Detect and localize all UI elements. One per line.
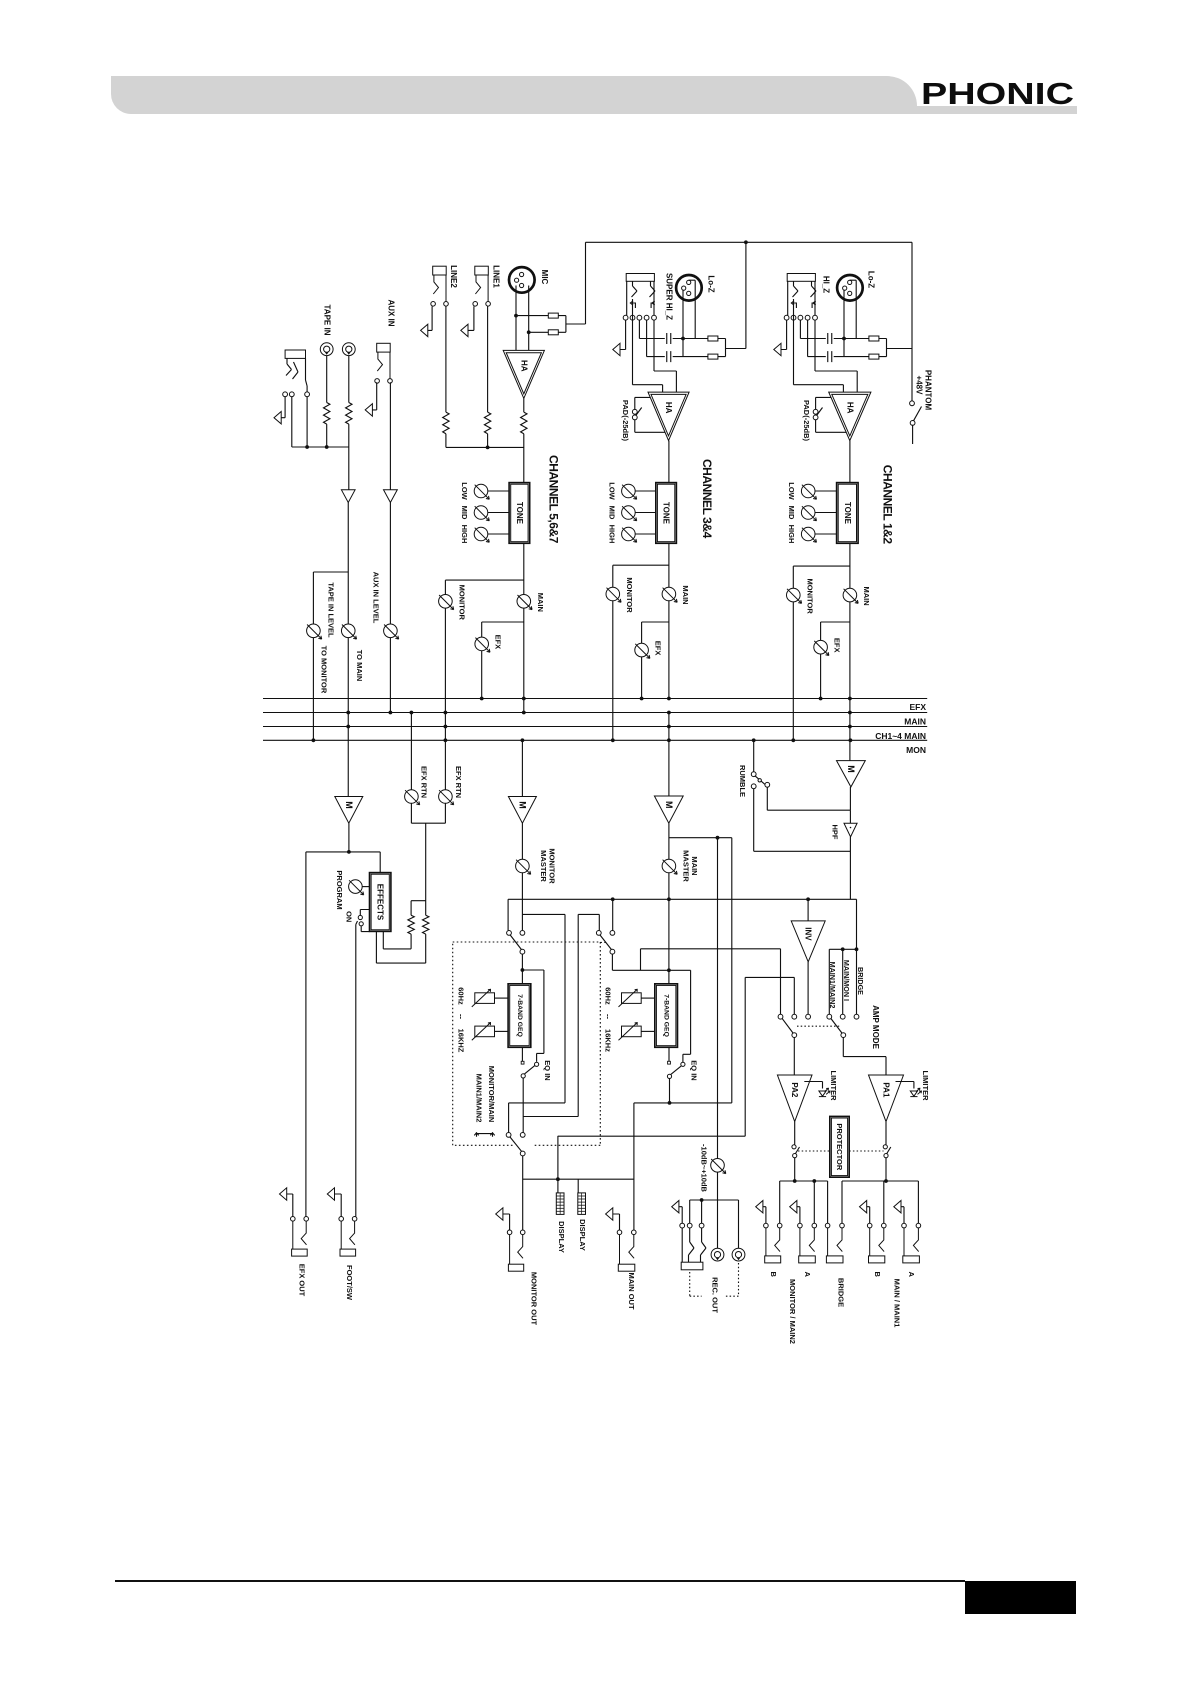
junction main master on CH1-4 bus	[667, 725, 671, 729]
wire TAPE IN right edge	[306, 358, 308, 392]
junction tape main on MAIN bus	[346, 711, 350, 715]
switch geq2 sel lever	[600, 935, 611, 950]
svg-text:7-BAND GEQ: 7-BAND GEQ	[516, 994, 523, 1037]
wire CH5,6&7 efx to EFX bus	[481, 651, 483, 699]
switch AMP MODE contact R3	[854, 1014, 859, 1019]
svg-text:BRIDGE: BRIDGE	[837, 1278, 846, 1307]
ground MAIN OUT	[606, 1208, 613, 1220]
wire geq2 input rail	[612, 954, 690, 1062]
svg-text:MAIN / MAIN1: MAIN / MAIN1	[893, 1279, 902, 1328]
svg-text:CHANNEL 1&2: CHANNEL 1&2	[881, 465, 895, 545]
svg-text:AMP MODE: AMP MODE	[871, 1005, 880, 1050]
filter HPF	[844, 823, 857, 837]
wire HA CH5,6&7 output	[523, 398, 525, 412]
svg-text:MAIN: MAIN	[536, 593, 545, 612]
wire AUX to pot	[389, 503, 391, 625]
wire CH1&2 phantom join	[887, 339, 913, 357]
wire geq1 input rail	[522, 954, 544, 1062]
switch geq2 sel contact a	[596, 931, 601, 936]
switch mon/main sel contact b	[520, 1133, 525, 1138]
junction geq1 in	[521, 968, 525, 972]
switch CH1&2 PAD contact a	[813, 409, 818, 414]
wire geq1 bypass drop	[509, 1103, 565, 1133]
svg-text:CH1~4 MAIN: CH1~4 MAIN	[875, 731, 926, 741]
pot CH5,6&7 MAIN	[517, 595, 532, 610]
wire MONITOR OUT ground	[503, 1214, 510, 1230]
svg-text:RUMBLE: RUMBLE	[738, 765, 747, 797]
wire CH3&4 phantom join	[726, 339, 746, 357]
svg-text:PA2: PA2	[790, 1082, 799, 1098]
wire CH1&2 efx to EFX bus	[820, 654, 822, 699]
dotted REC OUT cable	[690, 1263, 739, 1296]
pot CH5,6&7 TONE MID	[474, 506, 489, 521]
ground speaker A mon	[790, 1201, 797, 1213]
connector CH3&4 Lo-Z XLR	[676, 275, 702, 301]
pot CH1&2 EFX	[814, 640, 829, 655]
switch mon/main lever	[510, 1137, 522, 1151]
pot MAIN MASTER	[662, 859, 677, 874]
junction CH1&2 main on EFX bus	[848, 697, 852, 701]
wire monitor master to selector	[522, 873, 599, 1117]
ground AUX IN sleeve	[365, 404, 372, 416]
switch geq1 sel contact b	[520, 931, 525, 936]
junction CH5,6&7 on EFX bus	[480, 697, 484, 701]
capacitor CH1&2 upper	[828, 333, 832, 344]
switch CH3&4 PAD contact a	[632, 409, 637, 414]
switch protector right b	[884, 1154, 888, 1158]
svg-text:HA: HA	[845, 402, 854, 414]
display MONITOR LED bar	[556, 1193, 564, 1215]
switch RUMBLE contact c	[765, 782, 770, 787]
wire MIC phantom feed upper	[516, 315, 566, 317]
junction EFX RTN2 on MAIN bus	[444, 711, 448, 715]
wire geq1 pole down	[523, 1078, 578, 1133]
svg-text:REC. OUT: REC. OUT	[710, 1277, 719, 1313]
wire geq1 rail to L1	[641, 949, 781, 1015]
wire CH3&4 to HA inputs	[633, 299, 677, 392]
wire main master to geq rail	[668, 873, 670, 984]
switch CH3&4 PAD lever	[636, 408, 642, 416]
wire MIC XLR outputs to HA	[516, 286, 529, 351]
jack CH1&2 contact 1	[784, 315, 789, 320]
wire HA CH3&4 to TONE	[668, 441, 670, 483]
buffer AUX line amp	[384, 490, 398, 503]
wire CH3&4 monitor branch	[613, 565, 669, 587]
switch protector left a	[792, 1145, 796, 1149]
wire MIC phantom join	[566, 313, 586, 332]
svg-text:BRIDGE: BRIDGE	[856, 967, 865, 995]
jack CH3&4 HI-Z combo body	[626, 274, 654, 282]
jack REC OUT contact 689.7	[687, 1223, 692, 1228]
svg-text:LIMITER: LIMITER	[921, 1071, 930, 1102]
pot CH1&2 TONE LOW	[801, 484, 816, 499]
wire LINE2 sleeve to ground	[428, 306, 432, 330]
wire TAPE IN sleeve to ground	[281, 397, 285, 418]
bus MAIN	[263, 712, 927, 714]
svg-text:EFX: EFX	[654, 641, 663, 656]
slider geq2 16KHz	[619, 1023, 642, 1041]
svg-text:MASTER: MASTER	[681, 850, 690, 882]
wire CH3&4 MID pot stub	[635, 512, 656, 514]
svg-text:MAIN: MAIN	[681, 585, 690, 604]
header gray bar	[111, 76, 917, 114]
pot CH3&4 TONE HIGH	[622, 527, 637, 542]
footer black box	[965, 1581, 1076, 1614]
wire CH5,6&7 main line	[523, 543, 525, 594]
switch geq2 EQ IN square	[668, 1061, 671, 1064]
wire CH3&4 main line	[668, 543, 670, 587]
wire CH1&2 main to mon sum	[849, 602, 851, 761]
junction TAPE merge b	[325, 445, 329, 449]
summing amp M MON	[837, 761, 866, 787]
wire INV out	[807, 962, 809, 1015]
wire CH5,6&7 monitor to MON bus	[444, 608, 446, 740]
wire INV feed	[807, 899, 809, 921]
svg-text:HPF: HPF	[831, 825, 840, 840]
resistor EFX return b	[423, 915, 429, 934]
gang geq selector dotted	[600, 941, 607, 943]
jack REC OUT contact 682.2	[680, 1223, 685, 1228]
wire RUMBLE feed	[753, 740, 755, 771]
junction CH3&4 on MON bus	[611, 738, 615, 742]
svg-text:MAIN OUT: MAIN OUT	[627, 1272, 636, 1309]
junction TAPE merge a	[305, 445, 309, 449]
svg-text:B: B	[769, 1271, 778, 1277]
wire EFFECTS outputs	[376, 931, 425, 963]
wire bridge tap	[856, 899, 858, 1014]
switch phantom contact b	[910, 421, 915, 426]
jack FOOT/SW	[339, 1217, 357, 1257]
wire geq1 out	[521, 1047, 523, 1061]
svg-text:FOOT/SW: FOOT/SW	[345, 1265, 354, 1301]
svg-text:PA1: PA1	[882, 1082, 891, 1098]
switch protector left b	[793, 1154, 797, 1158]
jack CH1&2 contact 3	[798, 315, 803, 320]
switch CH3&4 PAD contact b	[632, 415, 637, 420]
wire TAPE RCA R drop	[348, 356, 350, 403]
switch mon/main sel pole	[520, 1151, 525, 1156]
wire AUX sleeve to ground	[372, 382, 376, 410]
wire speaker B main ground	[867, 1207, 870, 1224]
junction main master on MON bus	[667, 738, 671, 742]
svg-text:EFX RTN: EFX RTN	[454, 766, 463, 798]
wire CH3&4 efx branch	[642, 622, 669, 643]
switch protector right a	[883, 1145, 887, 1149]
svg-text:EFX RTN: EFX RTN	[420, 766, 429, 798]
svg-text:DISPLAY: DISPLAY	[557, 1221, 566, 1253]
switch RUMBLE mid contact	[758, 779, 761, 782]
wire PROGRAM stub	[362, 886, 369, 888]
junction EFX RTN1 on MAIN bus	[410, 711, 414, 715]
wire HA CH1&2 to TONE	[849, 441, 851, 483]
wire H1 drop to geq2 selector	[612, 899, 614, 930]
bus CH1~4 MAIN	[263, 726, 927, 728]
jack CH3&4 insertion arrow 2	[651, 301, 655, 308]
junction LINE1 on mix	[486, 446, 490, 450]
wire display1 drop	[557, 1136, 559, 1193]
jack CH3&4 contact 2	[630, 315, 635, 320]
wire MIC phantom feed lower	[529, 331, 566, 333]
svg-text:MONITOR OUT: MONITOR OUT	[529, 1272, 538, 1326]
ground speaker B mon	[756, 1201, 763, 1213]
wire EFX RTN 1 to MAIN bus	[410, 713, 412, 790]
svg-text:--: --	[457, 1014, 466, 1019]
switch AMP MODE contact R1	[827, 1014, 832, 1019]
junction rumble on MON bus	[752, 738, 756, 742]
svg-text:MIC: MIC	[540, 270, 549, 285]
block TONE CH1&2	[837, 483, 859, 544]
svg-text:MASTER: MASTER	[539, 850, 548, 882]
svg-text:PAD(-25dB): PAD(-25dB)	[802, 400, 811, 442]
junction bracket mid	[841, 947, 845, 951]
pot CH5,6&7 MONITOR	[439, 595, 454, 610]
wire EFX OUT ground	[287, 1194, 293, 1217]
wire CH5,6&7 mix merge	[446, 434, 524, 483]
junction CH1&2 XLR wire on cap rail	[842, 337, 846, 341]
wire CH3&4 LOW pot stub	[635, 490, 656, 492]
jack CH3&4 insertion arrow 1	[630, 301, 635, 308]
junction REC jack tip	[700, 1198, 704, 1202]
junction CH5,6&7 main on MAIN bus	[522, 711, 526, 715]
wire geq1 slider1 stub	[495, 997, 509, 999]
connector TAPE IN RCA R	[342, 343, 355, 356]
svg-text:-10dB~+10dB: -10dB~+10dB	[700, 1144, 709, 1193]
connector TAPE IN RCA L	[320, 343, 333, 356]
svg-text:TONE: TONE	[515, 502, 524, 525]
wire TAPE merge	[292, 397, 349, 490]
PHONIC logo	[921, 77, 1140, 111]
svg-text:TO MONITOR: TO MONITOR	[320, 646, 329, 694]
wire CH3&4 HIGH pot stub	[635, 533, 656, 535]
svg-text:EFFECTS: EFFECTS	[376, 884, 385, 921]
svg-text:HI_Z: HI_Z	[822, 276, 831, 293]
switch geq2 sel pole	[610, 949, 615, 954]
gang AMP MODE dotted	[797, 1025, 840, 1027]
jack speaker speaker BRIDGE	[825, 1223, 844, 1263]
wire monitor feed horizontal	[558, 1135, 745, 1137]
junction PA2 rail feed	[793, 1179, 797, 1183]
wire PA1 speaker rail	[842, 1181, 918, 1223]
pot CH5,6&7 TONE HIGH	[474, 527, 489, 542]
junction display1	[556, 1177, 560, 1181]
junction main master on MAIN bus	[667, 711, 671, 715]
switch mon/main sel contact a	[506, 1133, 511, 1138]
svg-text:16KHz: 16KHz	[604, 1029, 613, 1052]
svg-text:MAIN: MAIN	[904, 716, 926, 726]
bus MON	[263, 739, 927, 741]
op-amp HA CH5,6&7	[503, 350, 544, 398]
switch AMP MODE contact L3	[806, 1014, 811, 1019]
wire geq2 slider1 stub	[641, 997, 655, 999]
svg-text:LINE2: LINE2	[449, 265, 458, 288]
wire phantom switch to supply	[912, 425, 914, 444]
switch geq1 EQ IN lever	[525, 1066, 535, 1074]
jack REC OUT springs	[682, 1228, 706, 1262]
jack TAPE IN contact 3	[305, 392, 310, 397]
pot CH3&4 EFX	[635, 643, 650, 658]
ground CH3&4 jack sleeve	[613, 343, 620, 355]
wire CH1&2 cap rail upper	[800, 320, 886, 339]
switch AMP MODE contact R2	[840, 1014, 845, 1019]
wire CH3&4 cap rail upper	[639, 320, 725, 339]
junction monitor master on MON bus	[521, 738, 525, 742]
wire mon sum out	[767, 787, 850, 810]
pot AUX IN LEVEL	[384, 624, 399, 639]
svg-text:EFX: EFX	[833, 638, 842, 653]
pot PROGRAM	[349, 880, 364, 895]
switch AMP MODE lever left	[782, 1019, 793, 1033]
svg-text:TONE: TONE	[662, 502, 671, 525]
wire master crossfeed rail H1	[508, 899, 856, 930]
svg-text:MAIN1/MAIN2: MAIN1/MAIN2	[474, 1074, 483, 1123]
svg-text:LIMITER: LIMITER	[829, 1071, 838, 1102]
jack CH1&2 HI-Z combo body	[787, 274, 815, 282]
jack CH3&4 contact 5	[652, 315, 657, 320]
wire CH1&2 efx branch	[821, 622, 850, 640]
svg-text:MID: MID	[460, 506, 469, 520]
wire CH1&2 HIGH pot stub	[815, 533, 837, 535]
ground speaker A main	[894, 1201, 901, 1213]
capacitor CH1&2 lower	[828, 351, 832, 362]
junction CH1&2 main on CH1-4 bus	[848, 725, 852, 729]
pot CH5,6&7 EFX	[475, 637, 490, 652]
wire MAIN bus to main master	[668, 713, 670, 797]
switch RUMBLE lever	[755, 776, 765, 785]
pot TAPE IN LEVEL (to monitor)	[307, 624, 322, 639]
wire CH3&4 cap rail lower	[647, 320, 726, 357]
svg-text:TAPE IN LEVEL: TAPE IN LEVEL	[326, 582, 335, 638]
wire CH3&4 PAD bracket	[635, 397, 666, 432]
svg-text:MAIN: MAIN	[862, 587, 871, 606]
switch geq1 EQ IN bypass	[535, 1062, 539, 1066]
junction EFX RTN2 on CH1-4 bus	[444, 725, 448, 729]
jack TAPE IN contact 1	[283, 392, 288, 397]
wire geq2 pole down	[669, 1079, 671, 1103]
wire amp mode bracket	[829, 949, 856, 1014]
junction CH1&2 on MON bus	[791, 738, 795, 742]
wire CH1&2 sleeve to ground	[781, 320, 787, 350]
svg-text:Lo-Z: Lo-Z	[867, 271, 876, 288]
resistor MIC phantom lower	[548, 330, 558, 335]
wire phantom +48V top rail	[586, 242, 913, 401]
wire speaker A mon ground	[797, 1207, 800, 1224]
svg-text:MID: MID	[787, 506, 796, 520]
junction rec feed tap	[716, 836, 720, 840]
wire geq2 out	[668, 1047, 670, 1061]
svg-text:HIGH: HIGH	[607, 525, 616, 544]
junction geq2 out on main h	[668, 1101, 672, 1105]
jack CH1&2 contact 2	[791, 315, 796, 320]
junction MIC cold on phantom rail	[527, 330, 531, 334]
switch AMP MODE lever right	[831, 1019, 842, 1033]
wire AUX signal	[389, 382, 391, 490]
wire PA1 out	[885, 1122, 887, 1181]
svg-text:A: A	[803, 1271, 812, 1277]
wire speaker B mon ground	[763, 1207, 766, 1224]
symbol gang arrows	[474, 1133, 494, 1137]
resistor LINE2 mix	[443, 412, 449, 434]
resistor TAPE R	[346, 403, 352, 425]
svg-text:PAD(-25dB): PAD(-25dB)	[621, 400, 630, 442]
junction MIC hot on phantom rail	[514, 314, 518, 318]
switch CH1&2 PAD lever	[817, 408, 823, 416]
svg-text:MONITOR: MONITOR	[457, 585, 466, 621]
jack MAIN OUT	[617, 1230, 636, 1271]
junction EFX out split	[347, 850, 351, 854]
switch geq2 sel contact b	[610, 931, 615, 936]
wire EFX RTN join	[411, 823, 426, 915]
connector REC OUT RCA L	[711, 1248, 724, 1261]
switch geq1 sel contact a	[507, 931, 512, 936]
jack CH3&4 contact springs	[632, 281, 656, 297]
ground MONITOR OUT	[496, 1208, 503, 1220]
block EFFECTS	[370, 873, 391, 932]
wire display2 drop	[577, 1179, 579, 1193]
switch geq1 sel pole	[520, 949, 525, 954]
switch RUMBLE contact b	[751, 784, 756, 789]
wire FOOT/SW ground	[335, 1194, 342, 1217]
pot EFX RTN 1	[405, 790, 420, 805]
header thin strip under logo	[180, 106, 1077, 114]
junction INV tap	[806, 897, 810, 901]
svg-text:TAPE IN: TAPE IN	[323, 305, 332, 336]
svg-text:LOW: LOW	[460, 482, 469, 500]
wire CH3&4 monitor to MON bus	[612, 601, 614, 741]
wire PA2 limiter stub	[804, 1082, 822, 1089]
LED LIMITER PA1	[910, 1088, 921, 1096]
svg-text:M: M	[517, 801, 527, 809]
op-amp HA CH3&4	[648, 392, 689, 441]
junction PA2 rail jack A	[812, 1179, 816, 1183]
slider geq2 60Hz	[619, 989, 642, 1007]
bus EFX	[263, 698, 927, 700]
slider geq1 16KHZ	[472, 1023, 495, 1041]
resistor MIC phantom upper	[548, 313, 558, 318]
svg-text:M: M	[846, 765, 856, 773]
svg-text:AUX IN LEVEL: AUX IN LEVEL	[372, 572, 381, 624]
switch geq2 EQ IN bypass	[681, 1062, 685, 1066]
switch AMP MODE pole right	[841, 1033, 846, 1038]
wire footswitch line	[356, 921, 358, 1217]
ground TAPE IN sleeve	[274, 412, 281, 424]
pot CH1&2 MAIN	[843, 588, 858, 603]
power amp PA1	[869, 1075, 904, 1122]
resistor LINE1 mix	[484, 412, 490, 434]
ground EFX OUT	[280, 1188, 287, 1200]
jack CH1&2 contact 4	[805, 315, 810, 320]
jack MONITOR OUT	[507, 1230, 525, 1271]
junction phantom rail CH3&4 tap	[744, 240, 748, 244]
svg-text:PHANTOM: PHANTOM	[924, 370, 933, 411]
svg-text:MONITOR: MONITOR	[805, 578, 814, 614]
jack CH1&2 insertion arrow 2	[812, 301, 816, 308]
wire PA1 limiter stub	[896, 1082, 914, 1089]
svg-text:60Hz: 60Hz	[457, 987, 466, 1005]
jack EFX OUT	[291, 1217, 309, 1257]
junction CH3&4 on EFX bus	[640, 697, 644, 701]
wire MAIN OUT ground	[613, 1214, 620, 1230]
jack speaker speaker B main	[867, 1223, 886, 1263]
jack CH1&2 insertion arrow 1	[791, 301, 796, 308]
svg-text:EQ IN: EQ IN	[690, 1060, 699, 1080]
svg-text:LOW: LOW	[787, 482, 796, 500]
wire CH3&4 XLR pin3 drop	[682, 291, 684, 357]
svg-text:MAIN1/MAIN2: MAIN1/MAIN2	[828, 962, 837, 1009]
pot CH3&4 TONE MID	[622, 506, 637, 521]
svg-text:CHANNEL 5,6&7: CHANNEL 5,6&7	[547, 455, 561, 544]
wire CH1&2 to HA inputs	[794, 299, 858, 392]
wire geq1 slider2 stub	[495, 1030, 509, 1032]
